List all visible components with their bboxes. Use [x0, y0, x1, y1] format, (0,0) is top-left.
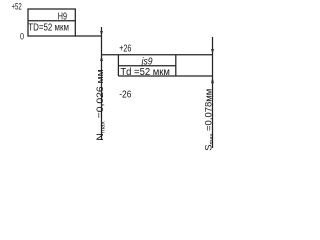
arrow down at +26 line (Smax)	[211, 49, 214, 55]
svg-text:ТD=52 мкм: ТD=52 мкм	[28, 23, 69, 34]
dimension line Smax	[212, 37, 214, 148]
svg-text:Nmax =0,026 мм: Nmax =0,026 мм	[95, 69, 107, 141]
zero line extension	[75, 35, 101, 37]
js9 box divider	[118, 65, 175, 67]
rotated label Smax=0,078 mm	[204, 89, 216, 151]
svg-text:Н9: Н9	[58, 11, 68, 22]
rotated label Nmax=0,026 mm	[95, 69, 107, 141]
svg-text:Smax =0,078мм: Smax =0,078мм	[204, 89, 216, 151]
dimension line Nmax	[101, 27, 103, 140]
js9 label cell right edge	[175, 55, 177, 76]
arrow down at zero line (Nmax)	[100, 31, 103, 36]
svg-text:+26: +26	[119, 43, 132, 54]
tolerance box js9 (shaft) left edge	[117, 55, 119, 76]
-26 line	[118, 75, 212, 77]
svg-text:Тd =52 мкм: Тd =52 мкм	[120, 67, 170, 78]
svg-text:0: 0	[20, 32, 24, 42]
arrow up at -26 line (Smax)	[211, 76, 214, 83]
svg-text:+52: +52	[12, 2, 22, 12]
+26 line	[102, 54, 213, 56]
tolerance box H9 (hole)	[28, 9, 75, 36]
H9 box divider	[28, 20, 75, 22]
arrow up at +26 line (Nmax)	[100, 55, 103, 61]
svg-text:-26: -26	[119, 90, 132, 101]
